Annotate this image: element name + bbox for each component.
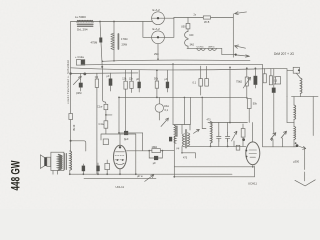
node: bus junction x=158 <box>157 58 159 60</box>
dropper slider bar <box>117 34 119 49</box>
output tube cathode arc <box>116 163 124 164</box>
wire: stubs for pair <box>201 66 207 95</box>
trimmer arrow 2 <box>281 131 286 138</box>
dropper resistor zigzag <box>111 33 114 50</box>
svg-text:473: 473 <box>183 157 188 160</box>
wire: secondary leads <box>53 171 58 175</box>
grid cap blob at x=79 <box>79 83 83 88</box>
wire: riser x=287 lower to coil B <box>287 97 294 127</box>
wire: box to coil <box>296 73 300 96</box>
capacitor dark at x=110.5 <box>109 79 113 86</box>
svg-text:C1w: C1w <box>97 105 102 109</box>
svg-text:0.1: 0.1 <box>193 81 197 85</box>
output tube cathode dots <box>117 159 119 161</box>
tube UCH grid dashes <box>249 150 257 157</box>
svg-text:473: 473 <box>207 119 212 122</box>
node: C12a right junction <box>83 73 86 76</box>
svg-text:μF: μF <box>107 75 110 78</box>
wire: antenna lead <box>304 149 306 181</box>
wire: drop to IF2 area <box>202 97 206 128</box>
wire: drop to IF1 left coil <box>183 97 185 124</box>
tube UCH cathode dot <box>245 150 247 152</box>
wire: E2 right to riser <box>164 36 174 38</box>
wire: y=132.9 run <box>119 132 143 134</box>
RC loop side wires <box>149 151 162 158</box>
wire: bottom bus y=174.2 <box>71 173 232 175</box>
RF coil C (x=294 lower) <box>294 126 296 139</box>
wire: chain to corner <box>101 128 136 174</box>
bus line 3 <box>71 68 274 70</box>
capacitor dark x=139.2 <box>138 82 141 89</box>
wire: dropper drop x=114 <box>113 22 115 61</box>
left lower chain: resistor box A <box>104 104 108 109</box>
capacitor dark x=167.5 <box>166 82 169 89</box>
wire: bottom tie y=146.8 <box>263 146 297 148</box>
resistor pair x=200.7 <box>199 79 203 87</box>
RF: small box top right <box>293 67 299 73</box>
bus line 2 <box>85 64 263 68</box>
svg-text:Lizenz Telefunken u. Schaltbil: Lizenz Telefunken u. Schaltbild <box>67 59 70 104</box>
volume pot arrow <box>243 77 250 88</box>
node: C12a left junction <box>69 72 71 74</box>
resistor box B <box>104 121 108 128</box>
node: RC right <box>162 150 164 152</box>
svg-text:DrM 207 + JG: DrM 207 + JG <box>274 52 294 56</box>
svg-text:DrL 294: DrL 294 <box>77 28 88 32</box>
wire: RC right to vertical <box>162 150 174 152</box>
E2 centre dot <box>157 36 159 38</box>
mains plug bar <box>232 14 234 57</box>
coil (driver choke) <box>174 125 176 136</box>
tube UCH dot 2 <box>246 156 248 158</box>
wire: tube3 bottom lead <box>252 165 254 167</box>
heater bumps pair B (below line) <box>208 48 216 50</box>
wire: U50 top stub <box>187 18 189 24</box>
mains arrow bottom <box>235 45 246 48</box>
svg-text:Lu 5000: Lu 5000 <box>75 15 86 19</box>
heater lamp bump 1 (left) <box>185 29 188 48</box>
wire: grid line into RC network <box>127 150 150 152</box>
node: rail junction y=140.8 <box>70 140 72 142</box>
resistor box beside right drop <box>276 77 281 84</box>
svg-text:1MΩ: 1MΩ <box>152 145 158 149</box>
wire: E1 right to riser <box>164 17 174 19</box>
IF1 left coil <box>182 134 184 147</box>
wire: stubs up from caps <box>219 123 228 133</box>
wire: IF1 bottom leads <box>182 146 195 158</box>
svg-text:448 GW: 448 GW <box>8 160 22 190</box>
svg-text:βμF: βμF <box>124 137 129 141</box>
svg-text:W 8: W 8 <box>204 20 210 24</box>
wire: tube3 top lead <box>251 123 253 142</box>
wire: horizontal y=96.6 <box>292 96 319 98</box>
wire: riser x=173.9 <box>173 18 175 38</box>
wire: drop to IF1 right coil <box>190 97 192 124</box>
svg-text:E.A.2: E.A.2 <box>153 8 161 12</box>
wire: IF1 top leads <box>173 125 190 134</box>
output tube top electrode dot <box>119 146 121 148</box>
resistor box x=243 <box>241 129 245 138</box>
svg-text:μF: μF <box>136 78 139 81</box>
wire: choke leads <box>173 137 175 177</box>
node: pot stub on bus3 <box>246 67 248 69</box>
node: junction at x=100 <box>99 21 101 23</box>
wire: stubs volume cluster <box>247 68 271 77</box>
resistor box x=264.7 <box>263 74 266 83</box>
wire: stub line4 to box <box>96 73 98 79</box>
coupling cap blob <box>124 131 128 135</box>
wire: primary top lead <box>69 150 72 153</box>
wire: x=142.6 drop <box>142 133 144 151</box>
pot circle cap C6w <box>155 104 163 112</box>
wire: riser x=287 <box>287 69 293 97</box>
antenna V symbol <box>295 180 315 186</box>
node: x=174.6 on bus1 <box>172 63 174 65</box>
E1 diameter line <box>152 17 165 19</box>
wire: top tie y=122.5 <box>208 122 247 124</box>
svg-text:20W: 20W <box>122 43 128 47</box>
wire: bus2 corner long drop x=262.6 <box>262 68 264 147</box>
resistor box below pot <box>247 99 251 109</box>
wire: caps drops to y=146.3 <box>211 124 244 146</box>
wire: C6w vertical <box>158 97 160 120</box>
output tube grids <box>115 155 125 160</box>
mains arrow top <box>235 12 247 15</box>
svg-text:Pb 20: Pb 20 <box>73 124 76 131</box>
svg-text:C1w: C1w <box>99 122 104 126</box>
node: cap stub on bus3 <box>255 68 257 70</box>
choke DrL294 (horizontal coil) <box>77 20 93 22</box>
svg-text:UCH11: UCH11 <box>197 46 205 48</box>
svg-text:E.A.2: E.A.2 <box>153 27 161 31</box>
small blob under tube left 1 <box>82 166 85 172</box>
wire: x=119 drop <box>118 97 120 132</box>
small box above-left of tube <box>103 139 108 145</box>
svg-text:0,1: 0,1 <box>165 108 169 112</box>
node on box right <box>298 69 300 71</box>
trimmer arrow 1 <box>271 133 276 141</box>
svg-text:μF: μF <box>153 161 156 165</box>
pot arrow near C6w <box>161 118 169 127</box>
rectifier circle E2 <box>152 31 165 44</box>
output tube anode line <box>116 151 125 153</box>
node: bus junction x=100 <box>102 61 104 63</box>
wire: chain verticals <box>106 110 112 121</box>
E2 diameter line <box>152 36 165 38</box>
wire: trimmer stubs to tie <box>273 138 283 147</box>
speaker coil bar <box>44 157 47 166</box>
IF1 trimmer arrow <box>194 129 200 133</box>
transformer winding scribble 2 <box>61 155 63 169</box>
wire: rail to cathode blob <box>71 141 86 151</box>
resistor pair x=206.6 <box>205 79 209 87</box>
switch arrow stub <box>298 146 306 149</box>
capacitor blob below 1M <box>154 156 158 160</box>
capacitor C12a (electrolytic block) <box>76 60 84 66</box>
wire: bottom bus y=178.3 <box>84 177 156 179</box>
rectifier circle E1 <box>152 12 165 25</box>
small box under tube left <box>105 163 110 169</box>
node: drops on AVC line <box>184 97 186 99</box>
C12a dark half <box>81 60 85 65</box>
wire: mid horizontal y=97.4 <box>119 96 247 98</box>
node: mains/heater junction <box>235 54 237 56</box>
trimmer arrow IF <box>232 131 237 141</box>
bus line 4 (short) <box>71 72 138 75</box>
capacitor (dark blob) on x=100 drop <box>99 38 102 43</box>
svg-text:+ C12a: + C12a <box>75 55 84 59</box>
transformer core lines <box>65 153 67 169</box>
choke core bar <box>176 126 178 136</box>
svg-text:μF: μF <box>165 78 168 81</box>
arrow stub to the right <box>237 55 250 57</box>
bus line 1 <box>103 60 251 61</box>
wire: top feed horizontal to rectifier circles <box>71 21 152 23</box>
node: RC left <box>148 150 150 152</box>
speaker magnet box <box>47 157 51 166</box>
wire: y=176.8 run <box>174 166 254 177</box>
RF coil B (x=294 upper) <box>294 105 296 119</box>
node: bus junction x=114 <box>113 60 115 62</box>
ceramic cap 1 <box>217 133 221 142</box>
wire: stub x=156.9 and drop <box>156 70 158 97</box>
wire: primary bottom to bus <box>69 170 71 174</box>
choke DrL294 underline row <box>77 24 93 26</box>
node: bus3 crossing <box>101 66 103 68</box>
svg-text:040: 040 <box>189 34 194 37</box>
output transformer box <box>51 152 64 170</box>
speaker cone <box>40 155 44 169</box>
node: bottom bus junctions <box>69 97 297 178</box>
svg-text:475M: 475M <box>91 41 98 45</box>
node: drop2 on AVC line <box>201 97 203 99</box>
IF2 coil <box>211 122 213 144</box>
antenna cap coil blob left of IF1 <box>174 136 176 143</box>
small box left of tube3 <box>236 145 240 150</box>
resistor box x=131.5 <box>130 81 133 88</box>
wire: E2 bottom to bus <box>157 44 159 60</box>
primary coil loops <box>70 151 72 170</box>
node: junction at x=114 <box>113 21 115 23</box>
wire: right drop x=273.8 <box>274 69 287 133</box>
svg-text:μ300: μ300 <box>293 160 299 164</box>
wire: box down then jog to lower chain <box>96 87 98 174</box>
small blob under tube left 2 <box>96 166 99 172</box>
wire: heater corner to mains junction <box>222 48 236 54</box>
wire: resistor to tube3 <box>248 109 250 123</box>
IF1 core lines <box>185 130 186 149</box>
resistor W8 (horizontal) <box>203 16 210 19</box>
heater bumps pair A (below line) <box>197 48 205 50</box>
wire: left branch down to E2 <box>143 22 152 38</box>
IF1 right coil <box>187 133 189 146</box>
small box on left wire <box>69 114 73 120</box>
ceramic cap 2 <box>225 133 229 142</box>
output tube envelope <box>114 145 127 169</box>
wire: coil stack verticals <box>293 97 295 147</box>
dark dot below resistor <box>242 138 245 141</box>
tube UCH (right) envelope <box>246 142 260 165</box>
wire: pot drop to resistor <box>247 85 256 99</box>
wire: blob drop <box>80 88 82 92</box>
E1 centre dot <box>157 17 159 19</box>
RF coil upper (x=300.3) <box>300 78 302 94</box>
svg-text:UCH11: UCH11 <box>248 182 257 186</box>
wire: stub x=131.5 <box>131 70 133 92</box>
svg-text:UCL11: UCL11 <box>116 185 125 189</box>
wire: drop to bus at x=100 <box>100 22 106 105</box>
electrolytic bar x=255.4 <box>254 76 258 85</box>
wire: long drop x=230 to IF2 top <box>229 67 231 122</box>
node: bus3 x=156.9 <box>156 69 158 71</box>
wire: y=166.8 run <box>174 166 253 168</box>
svg-text:μF w: μF w <box>137 174 143 178</box>
svg-text:170Ω: 170Ω <box>121 37 128 41</box>
svg-text:75kΩ: 75kΩ <box>236 80 242 84</box>
node mid chain <box>105 114 107 116</box>
wire: stub x=139.2 <box>138 70 140 92</box>
wire: top line to mains switch <box>174 17 233 19</box>
wire: tube top lead <box>119 134 121 145</box>
node: wave switch blob <box>296 144 299 147</box>
wire: heater run horizontal <box>187 47 222 49</box>
wire: stub to dark cap <box>110 73 112 91</box>
svg-text:UBF11: UBF11 <box>208 46 215 48</box>
svg-text:β2M: β2M <box>76 91 81 95</box>
wire: stubs to bottom bus <box>83 160 107 174</box>
wire: tube bottom lead <box>119 169 121 174</box>
wire: long drop x=174.6 to IF1 <box>172 64 174 124</box>
wire: bottom tie y=146.3 <box>187 145 245 147</box>
wire: stub x=167.5 <box>167 70 169 92</box>
resistor box x=156.9 <box>155 81 158 88</box>
resistor box x=270.9 <box>269 76 272 85</box>
svg-text:294: 294 <box>154 52 159 56</box>
resistor box x=96.9 <box>95 79 98 87</box>
blob on small coil <box>169 137 172 142</box>
wire: stub x=125.6 <box>125 70 127 133</box>
transformer winding scribble <box>59 155 61 170</box>
resistor 1M (horizontal) <box>152 149 160 153</box>
svg-text:C6w: C6w <box>164 104 169 108</box>
tone switch arrow <box>145 175 154 182</box>
resistor box x=125.6 <box>124 81 127 89</box>
svg-text:U50: U50 <box>181 26 186 29</box>
volume pot box <box>245 77 248 86</box>
wire: left mains vertical <box>70 22 72 151</box>
node x=119 <box>118 132 120 134</box>
wire: stub to box <box>274 77 276 84</box>
svg-text:34Ω: 34Ω <box>190 44 195 47</box>
arrow across blob <box>73 74 81 85</box>
node: x=230 on bus3 <box>229 67 231 69</box>
svg-text:0,3: 0,3 <box>274 80 278 83</box>
wire: right edge vertical <box>312 97 314 136</box>
capacitor blob right x=273.8 <box>272 88 276 93</box>
resistor U50 (vertical, heater chain) <box>186 23 190 29</box>
